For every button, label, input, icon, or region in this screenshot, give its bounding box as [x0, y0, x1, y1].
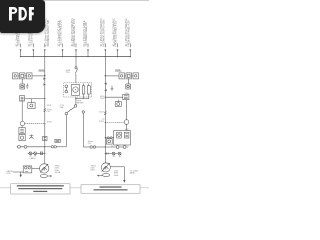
label break left: [47, 109, 53, 113]
aux box B2: [28, 99, 35, 109]
incoming feeder 9: [129, 44, 131, 58]
svg-text:2C x 2.5mm PVC CABLE: 2C x 2.5mm PVC CABLE: [83, 20, 86, 46]
label generator G1: [55, 166, 61, 174]
svg-text:4C x 25mm PVC/SWA/PVC: 4C x 25mm PVC/SWA/PVC: [45, 18, 48, 47]
meter box A2: [126, 78, 131, 89]
contactor coils: [65, 85, 68, 93]
panel box USB: [114, 131, 131, 146]
svg-text:TPN: TPN: [66, 72, 70, 74]
link K4-K5: [125, 75, 127, 77]
svg-text:INCOMING SUPPLY GEN: INCOMING SUPPLY GEN: [103, 19, 105, 46]
isolator switch S1: [75, 67, 78, 83]
contact row R1: [105, 146, 128, 149]
label generator G2: [90, 165, 96, 171]
svg-text:SYNC: SYNC: [99, 121, 105, 123]
svg-text:BUS: BUS: [101, 98, 106, 100]
svg-text:CABLE: CABLE: [29, 157, 36, 160]
wire riser to panel box: [105, 137, 113, 139]
wire relay to panel box: [126, 124, 128, 130]
earth wire left: [13, 172, 23, 177]
title block right: [81, 185, 140, 193]
busbar: [21, 56, 131, 58]
aux box B1: [20, 96, 25, 101]
label leader MSSB left: [39, 70, 45, 72]
relay K6: [133, 73, 139, 79]
ground right cluster: [111, 86, 114, 91]
lamp row R2: [105, 152, 121, 156]
svg-text:MSSB: MSSB: [115, 69, 121, 71]
relay K3: [27, 73, 33, 79]
label box 48V: [55, 139, 60, 142]
incoming feeder 6: [87, 44, 89, 58]
meter M1: [72, 85, 80, 96]
ground left cluster: [26, 84, 29, 89]
incoming feeder 5: [75, 44, 77, 58]
svg-text:METER: METER: [77, 102, 84, 104]
svg-text:MSSB: MSSB: [39, 69, 45, 71]
load wire right: [110, 167, 125, 183]
battery box BB1: [19, 128, 25, 134]
svg-text:PVC: PVC: [88, 143, 93, 145]
label riser right top: [100, 96, 105, 100]
synchro check relay right: [124, 120, 129, 125]
title block left: [11, 184, 70, 194]
svg-text:INCOMING SUPPLY TNB: INCOMING SUPPLY TNB: [48, 20, 50, 47]
link K1-K2: [18, 75, 20, 77]
label earth left: [7, 170, 14, 175]
svg-text:50Hz: 50Hz: [90, 170, 94, 172]
relay K1: [13, 73, 19, 79]
svg-text:BANK: BANK: [130, 172, 136, 175]
svg-text:4C x 16mm PVC/SWA/PVC: 4C x 16mm PVC/SWA/PVC: [112, 18, 115, 47]
feeder labels (rotated): [15, 18, 130, 47]
svg-text:PVC: PVC: [47, 111, 52, 113]
label SSB left riser: [39, 69, 45, 71]
left throw wire: [56, 115, 66, 147]
component labels: [7, 69, 139, 177]
resistor R2: [87, 84, 90, 95]
drawout ticks left riser: [43, 78, 44, 86]
svg-text:25mm: 25mm: [99, 112, 105, 114]
link K2-K3: [25, 75, 27, 77]
svg-text:4C x 25mm PVC/SWA/PVC: 4C x 25mm PVC/SWA/PVC: [71, 18, 74, 47]
incoming feeder 7: [104, 44, 106, 58]
control wire right: [105, 96, 123, 98]
incoming feeder 3: [44, 44, 46, 58]
relay K4: [119, 73, 125, 79]
svg-text:50Hz: 50Hz: [114, 175, 118, 177]
conductor break marks right riser: [104, 112, 106, 115]
right riser wire: [104, 57, 106, 164]
node center junction: [75, 98, 76, 99]
wire outlet to generator: [32, 168, 40, 170]
svg-text:ROD: ROD: [7, 173, 12, 175]
svg-text:2C x 2.5mm PVC CABLE: 2C x 2.5mm PVC CABLE: [57, 20, 60, 46]
synchro check relay left: [20, 121, 24, 125]
base oval right: [97, 174, 110, 177]
page top edge: [0, 0, 149, 1]
wire below cubicle: [75, 97, 77, 105]
svg-text:20kVA: 20kVA: [55, 171, 61, 174]
relay K5: [126, 73, 132, 79]
svg-text:SYNC: SYNC: [47, 121, 53, 123]
base oval left: [40, 175, 52, 178]
center drop wire: [75, 57, 77, 67]
aux box B3: [123, 94, 129, 99]
changeover switch S2: [65, 105, 84, 115]
generator G2 right: [101, 163, 110, 172]
dashed sync wire right: [105, 122, 124, 124]
right throw wire: [83, 113, 90, 147]
label sync right: [99, 119, 105, 123]
wire to sync meter right: [126, 100, 128, 120]
left cluster bus wire: [32, 75, 45, 77]
incoming feeder 8: [117, 44, 119, 58]
svg-text:TO DB B 415V: TO DB B 415V: [31, 31, 33, 47]
svg-text:4C x 25mm PVC/SWA/PVC: 4C x 25mm PVC/SWA/PVC: [125, 18, 128, 47]
control wire left: [25, 98, 45, 100]
incoming feeder 2: [32, 44, 34, 58]
right cluster bus wire: [105, 75, 119, 77]
outlet box left: [23, 166, 32, 173]
drawout ticks right riser: [106, 83, 107, 91]
label switch S2: [60, 105, 65, 109]
relay K2: [20, 73, 26, 79]
aux box B5: [106, 139, 112, 144]
CT box on left riser: [43, 136, 47, 140]
conductor break marks left riser: [44, 109, 46, 112]
label isolator S1: [66, 69, 71, 74]
label connector right throw: [88, 141, 94, 145]
label leader MSSB right: [115, 70, 121, 72]
contact row L1: [17, 145, 45, 148]
label generator G2 base: [114, 171, 119, 177]
svg-text:MCB: MCB: [47, 105, 52, 107]
svg-text:USB: USB: [125, 129, 130, 131]
battery box BB2: [19, 135, 25, 141]
fan motor symbol: [29, 135, 33, 139]
connector pair right throw: [90, 146, 105, 148]
resistor R1: [82, 84, 85, 95]
svg-text:4C x 25mm PVC/SWA/PVC: 4C x 25mm PVC/SWA/PVC: [100, 18, 103, 47]
left riser wire: [44, 57, 46, 164]
node right riser junctions: [105, 75, 106, 154]
label load right: [130, 170, 139, 175]
generator G1 left: [40, 164, 49, 173]
wire relay to battery boxes: [21, 126, 23, 128]
resistor return wire: [76, 94, 89, 99]
incoming feeder 4: [62, 44, 64, 58]
svg-text:INCOMING GENSET 415V: INCOMING GENSET 415V: [74, 18, 76, 46]
metering cubicle (dashed): [64, 83, 92, 97]
label right riser: [115, 69, 121, 71]
incoming feeder 1: [20, 44, 22, 58]
dashed sync wire left: [25, 123, 45, 125]
label below cubicle: [77, 100, 84, 104]
lamp row L2: [28, 152, 45, 156]
link K5-K6: [132, 75, 134, 77]
PDF badge: [0, 0, 45, 33]
meter box A1: [20, 79, 25, 89]
wire to sync meter left: [21, 101, 23, 121]
page footer rule: [0, 187, 149, 188]
node left riser junctions: [44, 75, 45, 154]
connector pair left throw: [45, 146, 57, 148]
label break right: [99, 112, 105, 114]
aux box B4: [115, 100, 121, 107]
